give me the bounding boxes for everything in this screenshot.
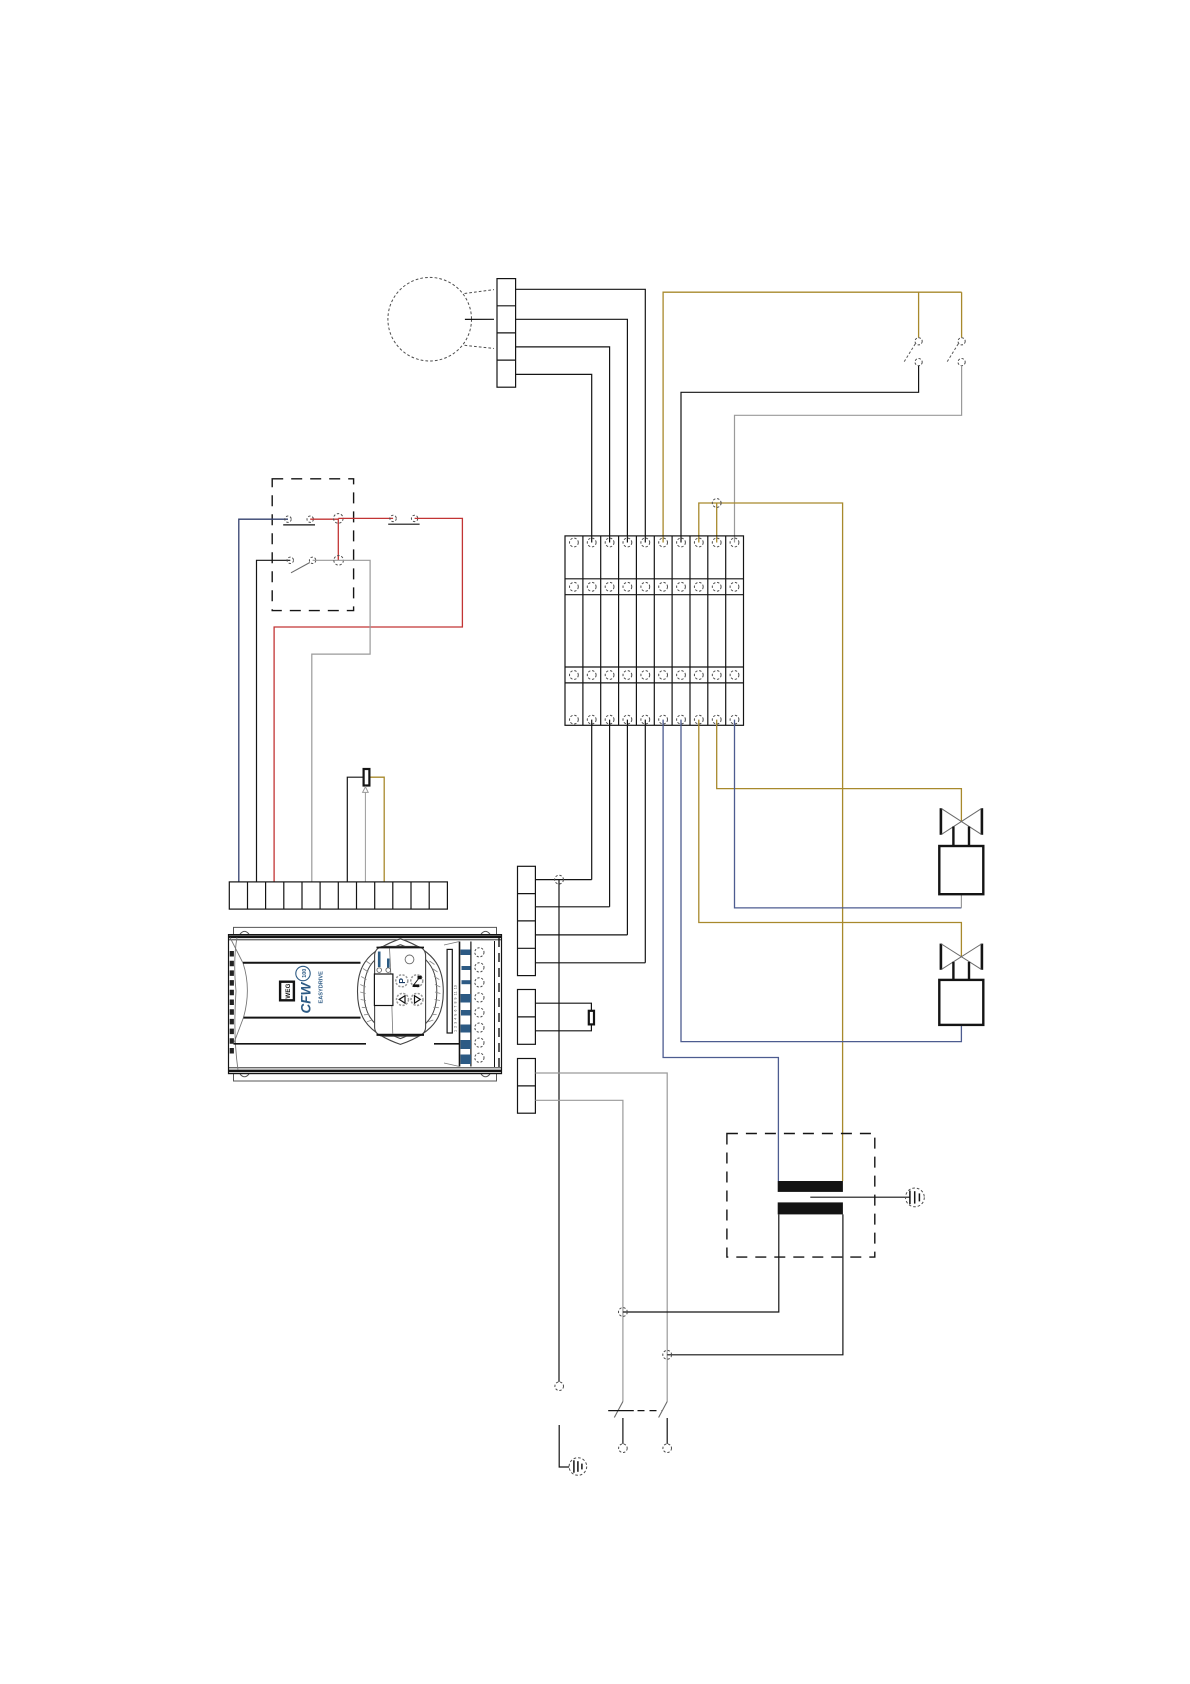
wire motor W to terminal block col3: [516, 347, 610, 543]
wire switch S2 to terminal block col10: [735, 366, 962, 543]
switch S4: [659, 1402, 672, 1453]
terminal strip X4 group3: [518, 1059, 536, 1114]
contact K1.1: [285, 516, 314, 522]
drive U1 terminal screws: [475, 948, 484, 1063]
valve Y2: [939, 944, 983, 1025]
potentiometer R1 body: [364, 769, 370, 786]
wire red junction vertical: [337, 518, 339, 560]
wire gray switch link: [313, 559, 339, 561]
wire resistor R2 to X4 box6: [535, 1024, 591, 1030]
ground symbol PE2: [906, 1188, 925, 1207]
wire X4 box5 to resistor R2: [535, 1003, 591, 1011]
wire PE down to plug: [558, 880, 560, 1382]
motor M1: [388, 277, 472, 361]
drive U1 terminal zone: [459, 942, 461, 1067]
svg-text:100: 100: [302, 969, 308, 978]
wire gold branch to col9: [716, 503, 718, 543]
wire col3 to drive terminal strip box2: [609, 720, 611, 907]
drive U1 WEG logo: [280, 982, 294, 1001]
potentiometer R1 wiper: [364, 792, 366, 882]
drive U1 body outline: [229, 935, 502, 1074]
svg-text:P: P: [397, 978, 407, 984]
terminal strip X4 group1: [518, 866, 536, 975]
drive U1 CFW100 label: [296, 966, 325, 1013]
wire black K1 switch to X3 box2: [257, 560, 291, 882]
wire X4 box8 to switch S3: [535, 1100, 623, 1401]
wire red to X3 box3: [274, 518, 462, 882]
ground symbol PE1: [569, 1458, 587, 1476]
wire heater bar2 right to node S4: [667, 1214, 843, 1354]
drive U1 keypad lens: [358, 939, 444, 1045]
drive U1 right edge: [494, 941, 496, 1067]
heater element bar2: [778, 1202, 843, 1214]
drive U1 button P: [396, 975, 408, 987]
wire gray to X3 box5: [312, 560, 370, 882]
wire col8 gold to valve Y2 coil: [699, 720, 962, 957]
junction node gray: [334, 556, 344, 566]
drive U1 button IO: [411, 975, 423, 987]
terminal circle PE plug: [555, 1382, 564, 1391]
wire X4 box7 to switch S4: [535, 1073, 667, 1402]
motor lead V: [465, 318, 494, 320]
junction node gold bus: [712, 499, 721, 508]
drive U1 button down: [411, 993, 423, 1005]
svg-text:EASYDRIVE: EASYDRIVE: [319, 971, 325, 1004]
wire col4 to drive terminal strip box3: [626, 720, 628, 935]
wire X4 box4 to col5: [535, 962, 645, 964]
drive U1 heatsink fins: [230, 951, 234, 1057]
junction node red: [334, 514, 344, 524]
drive U1 hole: [405, 955, 414, 964]
wire col6 blue to heater bar1 left: [663, 720, 778, 1181]
wire col7 blue to valve Y2 return: [681, 720, 961, 1042]
heater element bar1: [778, 1181, 843, 1192]
terminal strip X1 (motor terminal box): [497, 279, 516, 388]
terminal block X2 screw circles: [570, 538, 739, 724]
svg-text:1 2 3 4 5 6 7 8 9 11 13: 1 2 3 4 5 6 7 8 9 11 13: [455, 985, 459, 1032]
contact K1.2: [390, 515, 418, 521]
terminal strip X3 (drive power terminals): [229, 882, 447, 909]
wire X4 box3 to col4: [535, 934, 627, 936]
wire motor U to terminal block col5: [516, 289, 646, 542]
wire gold drop to switch S2: [961, 292, 963, 338]
inverter drive U1 (WEG CFW100): [229, 927, 502, 1081]
drive U1 mounting plate top: [234, 927, 497, 934]
drive U1 display: [374, 974, 393, 1006]
motor lead W: [465, 345, 495, 348]
wire col5 to drive terminal strip box4: [644, 720, 646, 963]
wire motor PE to terminal block col2: [516, 374, 592, 542]
switch S1: [915, 338, 922, 366]
potentiometer R1 wire gold: [369, 777, 384, 882]
terminal strip X4 group2: [518, 990, 536, 1045]
heater dashed enclosure E1: [727, 1134, 875, 1258]
drive U1 status LEDs: [377, 968, 382, 973]
drive U1 wire clamps: [461, 950, 472, 1065]
switch S3: [608, 1402, 662, 1453]
wire valve Y1 return stub: [960, 894, 962, 908]
drive U1 keypad bezel hatching: [360, 961, 440, 1022]
junction node PE: [555, 875, 564, 884]
wire red to contact K1.2: [338, 517, 393, 519]
wire gold bus to heater (node B): [699, 503, 843, 1181]
wire blue K1 contact to X3 box1: [239, 519, 288, 882]
wire heater sensor: [810, 1196, 910, 1198]
switch K1 aux: [287, 557, 316, 563]
wire col10 blue to valve Y1 return: [735, 720, 962, 908]
potentiometer R1 wire black: [347, 777, 363, 882]
svg-text:CFW: CFW: [299, 982, 314, 1014]
valve Y1: [939, 808, 983, 894]
wire switch S1 to terminal block col7: [681, 366, 919, 543]
drive U1 terminal label strip: [447, 949, 452, 1033]
contactor dashed enclosure K1: [272, 479, 353, 611]
wire X4 box1 to col2: [535, 879, 591, 881]
junction node S3: [619, 1308, 628, 1317]
wire heater bar2 left to node S3: [623, 1214, 779, 1312]
switch S2: [958, 338, 965, 366]
motor lead U: [465, 290, 495, 294]
terminal block X2 (DIN rail terminals): [565, 536, 744, 725]
wire PE to ground: [559, 1425, 569, 1467]
drive U1 heatsink silhouette: [230, 938, 247, 1045]
drive U1 keypad panel: [375, 946, 426, 1036]
wire motor V to terminal block col4: [516, 319, 628, 542]
drive U1 mounting plate bottom: [234, 1074, 497, 1081]
drive U1 button up: [397, 993, 409, 1005]
drive U1 face bands: [243, 962, 361, 964]
resistor R2: [589, 1011, 594, 1025]
wire red contact link: [310, 518, 338, 520]
wire col2 to drive terminal strip box1: [591, 720, 593, 880]
junction node S4: [663, 1350, 672, 1359]
wire gold drop to switch S1: [918, 292, 920, 338]
svg-text:WEG: WEG: [285, 983, 292, 998]
wire gold supply bus to switches: [663, 292, 962, 542]
wire X4 box2 to col3: [535, 906, 609, 908]
wire col9 gold to valve Y1 coil: [717, 720, 962, 822]
